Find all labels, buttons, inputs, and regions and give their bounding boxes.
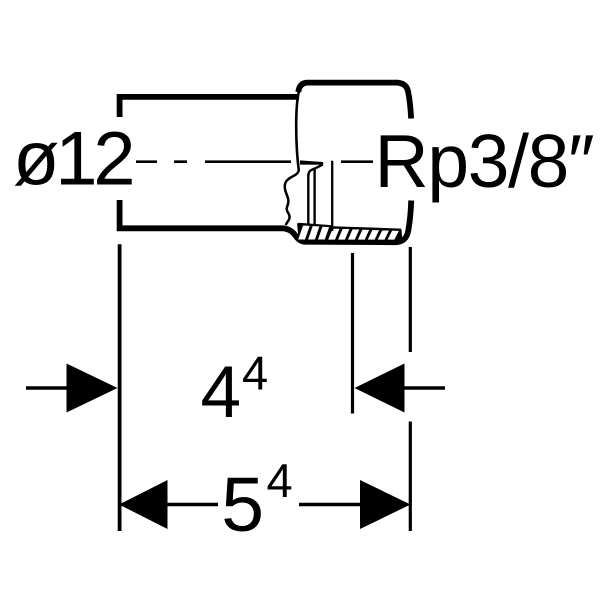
fitting body top edge — [298, 83, 397, 92]
press socket top outline with left break stub — [120, 97, 299, 117]
thread hatch white slots — [298, 226, 399, 240]
dim 44 arrow right — [355, 364, 405, 413]
svg-text:4: 4 — [267, 454, 293, 507]
svg-text:Rp3/8″: Rp3/8″ — [375, 119, 595, 203]
dim 54 line left — [168, 503, 219, 507]
break line pennant spike — [300, 160, 324, 164]
extension line right lower (x=410.3) — [409, 422, 412, 532]
dim 44 arrow left — [67, 364, 118, 413]
thread boundary line right segment — [333, 227, 402, 229]
dim 54 arrow left — [119, 480, 168, 529]
inner tube end double line right — [313, 168, 315, 225]
svg-text:5: 5 — [221, 462, 264, 548]
fitting body top-right corner / right edge upper — [396, 83, 411, 119]
fitting body left transition edge (thin) — [296, 86, 301, 171]
inner tube end double line left — [307, 175, 309, 226]
extension line left (x=119.6) — [118, 244, 122, 531]
svg-text:4: 4 — [201, 352, 242, 433]
pennant tail diagonal — [308, 164, 322, 175]
svg-text:4: 4 — [242, 347, 268, 400]
svg-text:ø12: ø12 — [13, 117, 136, 202]
dim 54 arrow right — [360, 480, 411, 529]
center line (dash-dot) — [136, 160, 373, 163]
dim 54 line right — [299, 503, 360, 507]
break-out wavy line — [285, 170, 299, 225]
thread boundary line left segment — [299, 224, 333, 226]
extension line right upper (x=410.3) — [409, 247, 412, 352]
thread start vertical line — [331, 161, 333, 231]
thread band black fill — [297, 223, 403, 243]
extension line middle (x=352.5) — [351, 253, 354, 414]
dim 44 leader right — [405, 386, 446, 390]
dim 44 leader left — [26, 386, 67, 390]
press socket bottom outline + body bottom contour — [120, 200, 412, 242]
